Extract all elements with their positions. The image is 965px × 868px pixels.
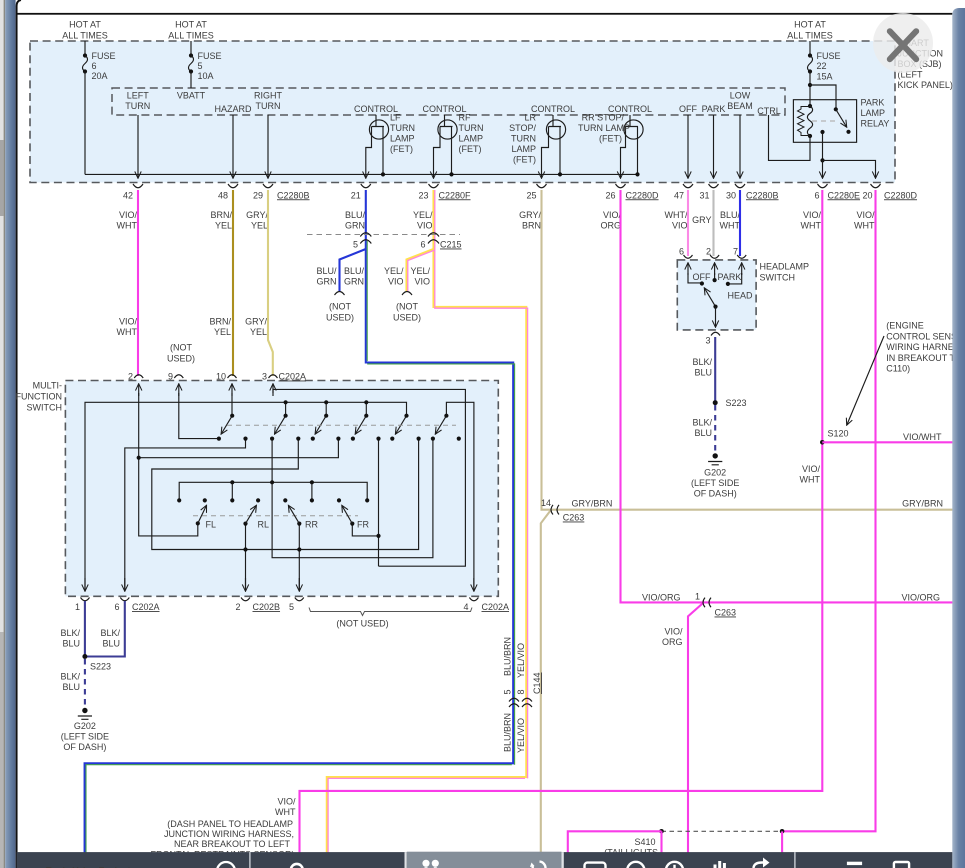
wire pin10 to s1 (231, 393, 233, 416)
wire to pin 6 (822, 160, 824, 177)
svg-text:5: 5 (353, 240, 358, 250)
wire pin 3 out (715, 307, 717, 327)
svg-text:BLU/: BLU/ (344, 266, 365, 276)
wire 20 VIO/WHT long run (782, 190, 875, 831)
wire BLK/BLU dashed to ground (left) (84, 659, 86, 711)
svg-text:PARK: PARK (861, 98, 885, 108)
svg-text:C2280B: C2280B (746, 190, 779, 200)
svg-text:8: 8 (516, 689, 526, 694)
svg-text:C2280E: C2280E (828, 190, 861, 200)
wire RR pivot to pin5 C202B (298, 524, 300, 591)
svg-text:2: 2 (235, 602, 240, 612)
wire 6 VIO/WHT long run (300, 190, 823, 868)
svg-text:OF DASH): OF DASH) (63, 742, 106, 752)
svg-text:TURN: TURN (459, 123, 484, 133)
svg-text:14: 14 (541, 498, 551, 508)
svg-text:VBATT: VBATT (177, 91, 206, 101)
wire pin2 vertical to FL pivot (139, 393, 198, 536)
svg-text:TURN LAMP: TURN LAMP (578, 123, 630, 133)
wire fuse5 to VBATT pin (190, 72, 192, 89)
svg-text:BLU: BLU (102, 639, 120, 649)
svg-text:BLU/BRN: BLU/BRN (503, 713, 513, 752)
svg-text:BRN/: BRN/ (210, 210, 232, 220)
maximize icon (894, 862, 909, 868)
wire OFF contact (687, 264, 689, 276)
svg-text:42: 42 (123, 190, 133, 200)
svg-text:G202: G202 (74, 721, 96, 731)
svg-text:S223: S223 (90, 662, 111, 672)
svg-text:JUNCTION WIRING HARNESS,: JUNCTION WIRING HARNESS, (164, 829, 294, 839)
svg-text:VIO/ORG: VIO/ORG (901, 593, 940, 603)
svg-text:2: 2 (128, 372, 133, 382)
svg-text:TURN: TURN (125, 101, 150, 111)
wire branch to relay switch (810, 85, 836, 109)
wire fuse22 to relay (809, 72, 811, 107)
svg-text:RELAY: RELAY (861, 119, 890, 129)
svg-text:C2280D: C2280D (626, 190, 660, 200)
svg-text:GRY/: GRY/ (246, 210, 268, 220)
svg-text:RIGHT: RIGHT (254, 91, 283, 101)
MFS exit arrows (81, 578, 479, 601)
wire LEFT TURN to pin 42 (137, 115, 139, 178)
svg-text:(NOT: (NOT (396, 302, 418, 312)
pin 31 bump (709, 184, 719, 188)
svg-text:RR: RR (305, 520, 318, 530)
svg-text:48: 48 (218, 190, 228, 200)
wire 23 YEL/VIO main run (327, 190, 527, 868)
connector C144 (509, 698, 532, 707)
relay K1 coil (808, 104, 812, 108)
svg-text:ALL TIMES: ALL TIMES (787, 31, 833, 41)
svg-text:PARK: PARK (702, 104, 726, 114)
svg-text:C2280B: C2280B (277, 190, 310, 200)
svg-text:HOT AT: HOT AT (175, 20, 207, 30)
pin 1 bump (81, 598, 90, 601)
svg-text:6: 6 (814, 190, 819, 200)
pin 4 bump (469, 598, 478, 601)
svg-text:VIO/: VIO/ (664, 627, 683, 637)
svg-text:LAMP: LAMP (390, 134, 415, 144)
wire HAZARD to pin 48 (232, 115, 234, 178)
svg-text:3: 3 (262, 372, 267, 382)
relay K1 park lamp relay box (793, 100, 856, 143)
svg-text:RL: RL (258, 520, 270, 530)
wire s2R to lower gang bus (152, 439, 419, 550)
wire pin9 to s1L (179, 393, 219, 439)
MFS interior (85, 389, 474, 590)
svg-text:SWITCH: SWITCH (27, 403, 63, 413)
MFS top switch dots (137, 400, 461, 551)
svg-text:(NOT: (NOT (329, 302, 351, 312)
minimize icon (847, 862, 862, 865)
svg-text:LAMP: LAMP (459, 134, 484, 144)
svg-text:BRN: BRN (522, 221, 541, 231)
switch RR blade (289, 506, 300, 524)
pin 42 bump (133, 184, 143, 188)
pin 48 bump (228, 184, 238, 188)
svg-text:VIO/: VIO/ (119, 210, 138, 220)
relay K1 switch (834, 107, 838, 111)
toolbar separator 2 (794, 852, 795, 868)
FET U2 RF turn lamp (422, 104, 483, 178)
svg-text:(FET): (FET) (513, 155, 536, 165)
svg-text:YEL/VIO: YEL/VIO (516, 643, 526, 678)
svg-text:10: 10 (216, 372, 226, 382)
wire BLK/BLU dashed to ground (714, 405, 716, 456)
wire S410 left stub (660, 831, 662, 852)
fuse F22 feed wire (809, 41, 811, 55)
svg-text:GRY/BRN: GRY/BRN (902, 499, 943, 509)
svg-text:YEL/: YEL/ (384, 266, 404, 276)
pin 2 bump (241, 598, 250, 601)
left blue-gray bar (5, 0, 15, 868)
svg-text:TURN: TURN (256, 101, 281, 111)
svg-text:22: 22 (817, 61, 827, 71)
connector C263 pin 14 (551, 505, 559, 515)
svg-text:RF: RF (459, 113, 471, 123)
svg-text:OFF: OFF (693, 272, 711, 282)
toolbar help circle icon (217, 862, 235, 868)
SJB inner connector box (112, 88, 785, 115)
window icon (585, 863, 606, 868)
svg-text:CONTROL: CONTROL (531, 104, 575, 114)
engine note arrow (847, 336, 884, 425)
svg-text:BRN/: BRN/ (209, 317, 231, 327)
svg-text:6: 6 (420, 240, 425, 250)
svg-text:WHT/: WHT/ (665, 210, 688, 220)
svg-text:WHT: WHT (275, 807, 296, 817)
wire S410 right stub (781, 831, 783, 852)
svg-text:VIO: VIO (672, 221, 688, 231)
svg-text:26: 26 (605, 190, 615, 200)
svg-text:ALL TIMES: ALL TIMES (62, 31, 108, 41)
pin 2 bump (134, 375, 143, 378)
svg-text:LEFT: LEFT (127, 91, 150, 101)
svg-text:STOP/: STOP/ (509, 123, 536, 133)
svg-text:GRY/: GRY/ (519, 210, 541, 220)
svg-text:USED): USED) (326, 313, 354, 323)
svg-text:NEAR BREAKOUT TO LEFT: NEAR BREAKOUT TO LEFT (174, 839, 291, 849)
svg-text:RR STOP/: RR STOP/ (582, 113, 625, 123)
svg-text:LAMP: LAMP (861, 108, 886, 118)
svg-text:FUNCTION: FUNCTION (16, 392, 63, 402)
svg-text:9: 9 (168, 372, 173, 382)
wire 31 GRY (712, 190, 714, 256)
svg-text:FUSE: FUSE (817, 51, 841, 61)
svg-text:LAMP: LAMP (511, 144, 536, 154)
node junction fuse22 branch (808, 83, 812, 87)
svg-text:PARK: PARK (718, 272, 742, 282)
wire BLK/BLU pin 6 (85, 601, 125, 657)
wire 21 BLU/GRN main run (85, 190, 514, 868)
svg-text:WHT: WHT (720, 221, 741, 231)
svg-text:ALL TIMES: ALL TIMES (168, 31, 214, 41)
wire s3 top stub (325, 402, 327, 415)
svg-text:YEL: YEL (250, 327, 267, 337)
svg-text:(NOT: (NOT (170, 343, 192, 353)
wire 26 branch down (688, 604, 703, 868)
wire s2 top stub (285, 402, 287, 415)
svg-text:5: 5 (198, 61, 203, 71)
pin 3 bump (269, 375, 278, 378)
svg-text:GRY/BRN: GRY/BRN (572, 499, 613, 509)
splice S223 (headlamp) (713, 400, 718, 405)
svg-text:WHT: WHT (854, 221, 875, 231)
svg-text:C202B: C202B (253, 602, 281, 612)
svg-text:7: 7 (733, 247, 738, 257)
svg-text:BLU: BLU (694, 428, 712, 438)
svg-text:FUSE: FUSE (92, 51, 116, 61)
wire FR pivot to s4R vertical (352, 524, 378, 536)
connector arc not used (21) (335, 292, 345, 296)
wire 25 GRY/BRN long run (542, 190, 954, 510)
pin 9 bump (174, 375, 183, 378)
svg-text:GRN: GRN (345, 221, 365, 231)
splice S410 right node (780, 829, 785, 834)
svg-text:47: 47 (674, 190, 684, 200)
ground G202 (right) (713, 453, 718, 458)
svg-text:GRY: GRY (692, 215, 711, 225)
svg-text:31: 31 (699, 190, 709, 200)
wire 25 branch down (541, 511, 551, 853)
svg-text:YEL/: YEL/ (413, 210, 433, 220)
wire pin3 to s4R and FR (273, 389, 465, 566)
svg-text:GRN: GRN (344, 277, 364, 287)
svg-text:YEL: YEL (215, 221, 232, 231)
svg-text:YEL: YEL (251, 221, 268, 231)
not used bracket (309, 608, 472, 616)
svg-text:YEL/: YEL/ (410, 266, 430, 276)
pin 10 bump (228, 375, 237, 378)
wire s4 top stub (365, 402, 367, 415)
info circle icon (666, 862, 683, 868)
wire relay output (822, 132, 824, 160)
svg-text:6: 6 (679, 247, 684, 257)
svg-text:FL: FL (206, 520, 217, 530)
fuse F6 feed wire (84, 41, 86, 55)
svg-text:BLK/: BLK/ (60, 672, 80, 682)
pin 21 bump (361, 184, 371, 188)
svg-text:LR: LR (524, 113, 536, 123)
wire RL-L stub (231, 482, 233, 500)
wire to pin 20 (823, 160, 876, 177)
svg-text:1: 1 (75, 602, 80, 612)
wire 26 VIO/ORG run (621, 190, 954, 602)
SJB box (30, 41, 895, 183)
svg-text:C263: C263 (563, 513, 585, 523)
pin 47 bump (683, 184, 693, 188)
splice S120 (820, 440, 825, 445)
svg-text:15A: 15A (817, 72, 833, 82)
connector arc not used (23) (402, 292, 412, 296)
svg-text:CTRL: CTRL (757, 106, 781, 116)
svg-text:GRN: GRN (317, 277, 337, 287)
left gray strip (0, 0, 4, 868)
svg-text:GRY/: GRY/ (245, 317, 267, 327)
svg-text:BLK/: BLK/ (692, 357, 712, 367)
splice S410 left node (659, 829, 664, 834)
svg-text:6: 6 (92, 61, 97, 71)
svg-text:BLU: BLU (62, 639, 80, 649)
fuse F6 (83, 53, 87, 57)
wire top bus from pin1 (85, 402, 407, 590)
svg-text:HEADLAMP: HEADLAMP (760, 262, 810, 272)
splice S223 (left) (82, 654, 87, 659)
svg-text:LF: LF (390, 113, 401, 123)
svg-text:WHT: WHT (117, 327, 138, 337)
pin 30 bump (735, 184, 745, 188)
pin 25 bump (537, 184, 547, 188)
svg-text:OF DASH): OF DASH) (694, 489, 737, 499)
wire HEAD contact (741, 264, 743, 276)
fuse F5 feed wire (190, 41, 192, 55)
svg-text:IN BREAKOUT TO: IN BREAKOUT TO (886, 353, 962, 363)
svg-text:BLU: BLU (62, 682, 80, 692)
MFS box (65, 381, 498, 597)
svg-text:20: 20 (862, 190, 872, 200)
wire fuse6 to VBATT rail (84, 72, 86, 175)
svg-text:WHT: WHT (800, 475, 821, 485)
svg-text:C215: C215 (440, 240, 462, 250)
wire s1R to pin6 (125, 439, 246, 591)
wire 29 GRY/YEL to MFS pin 3 (268, 190, 273, 376)
svg-text:VIO/: VIO/ (802, 464, 821, 474)
wire 48 BRN/YEL to MFS pin 10 (232, 190, 234, 376)
pin 2 bump (710, 255, 719, 258)
svg-text:10A: 10A (198, 71, 214, 81)
wire s4R vertical (378, 439, 380, 567)
svg-text:BLU/: BLU/ (316, 266, 337, 276)
FET U1 LF turn lamp (354, 104, 415, 178)
refresh icon (530, 863, 535, 868)
VBATT rail (85, 173, 638, 175)
right blue-gray bar (952, 8, 965, 868)
wire RIGHT TURN to pin 29 (267, 115, 269, 178)
svg-text:5: 5 (503, 689, 513, 694)
close button (873, 13, 933, 73)
svg-text:G202: G202 (704, 468, 726, 478)
FET U3 LR stop/turn lamp (509, 104, 575, 178)
ground G202 (left) (82, 708, 87, 713)
circle icon (627, 862, 644, 868)
FET U4 RR stop/turn lamp (578, 104, 652, 178)
svg-text:25: 25 (526, 190, 536, 200)
svg-text:BLK/: BLK/ (100, 628, 120, 638)
pin 29 bump (263, 184, 273, 188)
MFS top switch blades (222, 416, 447, 434)
svg-text:(DASH PANEL TO HEADLAMP: (DASH PANEL TO HEADLAMP (167, 819, 293, 829)
svg-text:6: 6 (114, 602, 119, 612)
wire 30 BLU/WHT (739, 190, 741, 256)
svg-text:HOT AT: HOT AT (69, 20, 101, 30)
svg-text:VIO/: VIO/ (277, 797, 296, 807)
svg-text:USED): USED) (167, 354, 195, 364)
svg-text:FUSE: FUSE (198, 51, 222, 61)
wire pin2 branch to s3R (139, 439, 339, 458)
relay K1 link (812, 120, 838, 122)
svg-text:USED): USED) (393, 313, 421, 323)
svg-text:ORG: ORG (662, 637, 683, 647)
MFS top gang dashed (227, 424, 456, 426)
pin 20 bump (871, 184, 881, 188)
svg-text:(NOT USED): (NOT USED) (336, 619, 388, 629)
wire S120 to right VIO/WHT (822, 441, 953, 443)
splice S410 bus dashed (662, 830, 783, 832)
wire 23 not-used branch (407, 249, 434, 291)
pin 3 bump (711, 332, 720, 335)
wire 21 green strand (86, 241, 515, 868)
svg-text:BLU/: BLU/ (720, 210, 741, 220)
svg-text:WHT: WHT (117, 221, 138, 231)
wire OFF to pin 47 (687, 115, 689, 178)
svg-text:C202A: C202A (482, 602, 510, 612)
svg-text:(LEFT SIDE: (LEFT SIDE (691, 478, 739, 488)
svg-text:BLK/: BLK/ (692, 418, 712, 428)
svg-text:(LEFT SIDE: (LEFT SIDE (61, 732, 109, 742)
fuse F22 (808, 53, 812, 57)
wire 21 not-used branch (340, 249, 366, 291)
svg-text:VIO/WHT: VIO/WHT (903, 432, 942, 442)
svg-text:SWITCH: SWITCH (760, 273, 796, 283)
svg-text:LOW: LOW (730, 91, 751, 101)
svg-text:FR: FR (357, 520, 369, 530)
svg-text:BLK/: BLK/ (60, 628, 80, 638)
panel black border left (17, 0, 21, 868)
switch FL blade (198, 506, 206, 523)
wire lower feed bus (179, 482, 367, 500)
svg-text:BEAM: BEAM (727, 101, 753, 111)
pin 6 bump (684, 255, 693, 258)
svg-text:HAZARD: HAZARD (214, 104, 252, 114)
wire s6 top feed to pin4 (446, 402, 474, 590)
svg-text:TURN: TURN (511, 134, 536, 144)
wire RR-R stub (311, 482, 313, 500)
svg-text:(FET): (FET) (599, 134, 622, 144)
svg-text:30: 30 (726, 190, 736, 200)
wire 42 VIO/WHT to MFS pin 2 (137, 190, 139, 376)
svg-text:3: 3 (705, 336, 710, 346)
svg-text:HEAD: HEAD (728, 291, 754, 301)
svg-text:KICK PANEL): KICK PANEL) (898, 80, 953, 90)
svg-text:(FET): (FET) (390, 144, 413, 154)
MFS entry arrows (138, 385, 140, 397)
svg-text:1: 1 (695, 592, 700, 602)
wire s2L to s6L via center (272, 439, 433, 558)
wire BLK/BLU headlamp to S223 (714, 337, 716, 403)
panel top black line (17, 13, 953, 15)
wire BLK/BLU pin 1 (84, 601, 86, 657)
toolbar base (17, 852, 953, 868)
svg-text:S120: S120 (828, 429, 849, 439)
toolbar separator 1 (249, 852, 250, 868)
pin 5 bump (295, 598, 304, 601)
svg-text:BLU: BLU (694, 368, 712, 378)
svg-text:BLU/: BLU/ (345, 210, 366, 220)
active tab light panel (405, 852, 407, 868)
svg-text:(FET): (FET) (459, 144, 482, 154)
svg-text:C110): C110) (886, 364, 910, 374)
svg-text:ORG: ORG (600, 221, 621, 231)
svg-text:BLU/BRN: BLU/BRN (503, 637, 513, 676)
MFS lower gang dashed (193, 515, 358, 517)
chart icon (714, 865, 717, 868)
svg-text:C263: C263 (715, 608, 737, 618)
svg-text:20A: 20A (92, 71, 108, 81)
wire LOW BEAM to pin 30 (739, 115, 741, 178)
wire RL pivot to pin2 C202B (245, 524, 247, 591)
svg-text:C144: C144 (532, 672, 542, 694)
svg-text:VIO/: VIO/ (856, 210, 875, 220)
